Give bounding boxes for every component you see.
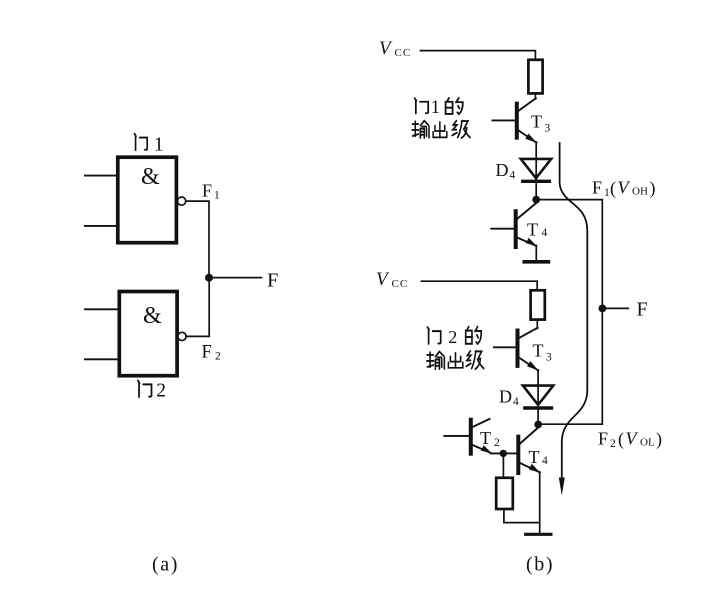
diode D4 (gate 1)	[521, 159, 551, 196]
wire T3 emitter to D4 (gate 2)	[537, 370, 539, 386]
wire T4 base to R3	[502, 453, 504, 478]
wire F2 from bubble to bus	[186, 282, 209, 337]
wire R3 to ground rail	[504, 509, 540, 523]
svg-text:F: F	[598, 429, 608, 449]
wire VCC to R2	[422, 281, 538, 291]
transistor T4 (gate 1)	[491, 203, 536, 247]
node T4 base junction dot	[500, 450, 507, 457]
label T3 (gate 1)	[531, 112, 551, 135]
output bus: node F dot	[599, 305, 607, 313]
wire T3 emitter to D4	[535, 142, 537, 159]
wire F1 from bubble to bus	[186, 201, 209, 274]
label T2	[480, 428, 500, 449]
wire T4 emitter to ground (gate 1)	[535, 246, 537, 261]
wire T4 emitter down (gate 2)	[539, 472, 541, 533]
label F (b)	[637, 299, 648, 321]
svg-text:F: F	[592, 178, 602, 198]
ground (gate 2)	[526, 533, 551, 536]
label 门2	[138, 380, 166, 401]
label 门2的输出级	[427, 327, 484, 369]
gate G2 output bubble	[178, 332, 186, 340]
current path arrow (load current from gate1 into gate2 T4)	[559, 143, 588, 495]
wire F1 to output bus	[536, 200, 602, 308]
wire R2 to T3 collector (gate 2)	[536, 320, 538, 329]
svg-text:T: T	[480, 428, 491, 448]
svg-text:(: (	[610, 178, 616, 199]
wire R1 to T3 collector	[534, 93, 536, 99]
gate G2 (NAND) box	[119, 292, 177, 376]
label T4 (gate 1)	[527, 220, 548, 240]
label 门1	[135, 133, 164, 155]
svg-text:F: F	[637, 299, 648, 321]
svg-text:1: 1	[214, 190, 220, 202]
node F1 junction dot	[532, 196, 540, 204]
gate G1 output bubble	[178, 197, 186, 205]
node F junction dot (a)	[205, 274, 213, 282]
wire to F label (a)	[209, 277, 261, 279]
wire node F to label	[602, 307, 628, 309]
gate G2 input wire B	[85, 358, 119, 360]
svg-text:(: (	[618, 429, 624, 450]
transistor T3 (gate 2)	[494, 328, 539, 371]
wire VCC to R1	[421, 51, 536, 61]
svg-text:1: 1	[154, 133, 164, 155]
caption (b)	[526, 554, 554, 576]
svg-text:(a): (a)	[152, 554, 179, 576]
gate G2 input wire A	[85, 308, 119, 310]
svg-text:F: F	[202, 181, 212, 201]
svg-text:1: 1	[431, 97, 441, 118]
net VCC label (gate 1)	[379, 38, 411, 59]
label F (a)	[267, 270, 278, 292]
svg-text:2: 2	[156, 380, 166, 401]
svg-text:OL: OL	[640, 437, 655, 449]
svg-text:F: F	[202, 343, 212, 363]
label 门1的输出级	[412, 97, 470, 138]
resistor R2	[531, 290, 545, 319]
label F2	[202, 343, 222, 363]
svg-text:D: D	[499, 387, 512, 407]
svg-text:3: 3	[546, 352, 552, 364]
svg-text:T: T	[531, 112, 542, 132]
svg-text:V: V	[379, 38, 393, 59]
svg-text:OH: OH	[632, 186, 648, 198]
svg-text:CC: CC	[392, 278, 409, 290]
svg-text:2: 2	[494, 437, 500, 449]
svg-text:): )	[656, 429, 662, 450]
svg-text:T: T	[529, 447, 540, 467]
label T3 (gate 2)	[533, 341, 553, 364]
transistor T3 (gate 1)	[492, 98, 536, 143]
svg-text:2: 2	[448, 327, 457, 347]
svg-text:3: 3	[545, 123, 551, 135]
label F2(VOL)	[598, 429, 662, 451]
ground (gate 1)	[524, 260, 548, 264]
transistor T2 (gate 2)	[444, 419, 492, 454]
transistor T4 (gate 2)	[518, 428, 540, 474]
label T4 (gate 2)	[529, 447, 549, 467]
svg-text:4: 4	[510, 170, 516, 182]
svg-text:(b): (b)	[526, 554, 554, 576]
svg-text:): )	[650, 178, 656, 199]
wire T2 emitter to T4 base	[491, 452, 517, 454]
svg-text:V: V	[626, 429, 639, 449]
svg-text:4: 4	[542, 455, 548, 467]
svg-text:V: V	[376, 269, 390, 290]
label F1	[202, 181, 220, 202]
svg-text:T: T	[533, 341, 544, 361]
caption (a)	[152, 554, 179, 576]
resistor R1	[528, 60, 542, 94]
resistor R3	[496, 478, 513, 509]
svg-text:4: 4	[542, 227, 548, 239]
label D4 (gate 1)	[496, 160, 516, 182]
node F2 junction dot	[534, 421, 542, 429]
gate G1 input wire B	[85, 225, 118, 227]
svg-text:2: 2	[215, 351, 221, 363]
svg-text:T: T	[527, 220, 538, 240]
label F1(VOH)	[592, 178, 656, 200]
wire F2 to output bus	[538, 308, 602, 424]
svg-text:F: F	[267, 270, 278, 292]
gate G1 (NAND) box	[118, 157, 177, 243]
svg-text:CC: CC	[395, 47, 412, 59]
svg-text:&: &	[141, 164, 160, 190]
net VCC label (gate 2)	[376, 269, 408, 290]
svg-text:&: &	[143, 303, 162, 329]
svg-text:4: 4	[513, 396, 519, 408]
diode D4 (gate 2)	[523, 386, 553, 421]
svg-text:2: 2	[610, 438, 616, 450]
svg-text:D: D	[496, 160, 509, 180]
gate G1 input wire A	[85, 175, 118, 177]
svg-text:V: V	[618, 178, 631, 198]
label D4 (gate 2)	[499, 387, 519, 409]
